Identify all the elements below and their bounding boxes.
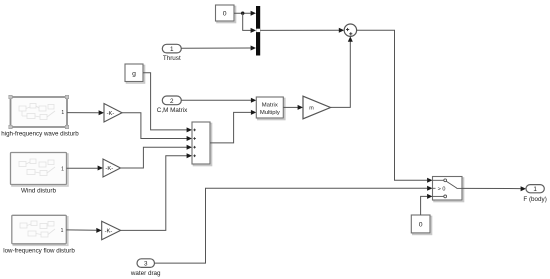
gain m	[303, 96, 331, 119]
svg-text:high-frequency wave disturb: high-frequency wave disturb	[1, 130, 79, 137]
inport 2 C,M Matrix	[157, 96, 188, 114]
wire Thrust to mux input 3	[181, 46, 256, 51]
wire K2 to switch input 3	[421, 194, 433, 215]
outport 1 F (body)	[523, 185, 546, 203]
add block A1 (4-input sum)	[192, 122, 212, 166]
switch block SW1	[433, 177, 464, 202]
svg-text:low-frequency flow disturb: low-frequency flow disturb	[3, 247, 75, 254]
wire block1 to gain G1	[67, 110, 104, 115]
svg-text:F (body): F (body)	[523, 196, 546, 203]
svg-text:-K-: -K-	[107, 111, 115, 117]
svg-text:g: g	[132, 71, 136, 78]
svg-text:> 0: > 0	[438, 187, 446, 193]
wire mux output to sum S1	[260, 28, 344, 33]
svg-text:1: 1	[61, 228, 64, 234]
mux M1	[256, 6, 260, 56]
wire block2 to gain G2	[67, 166, 104, 171]
wire branch K1 to mux input 2	[243, 13, 256, 33]
inport 3 water drag	[130, 259, 161, 277]
wire gain m to sum bottom input	[331, 36, 353, 107]
subsystem block high-frequency wave disturb (selected)	[1, 95, 79, 137]
subsystem block Wind disturb	[11, 153, 69, 195]
constant block K1 value 0 (top)	[216, 5, 236, 23]
wire K1 to mux input 1	[234, 11, 256, 16]
wire gain G1 to add input 2	[122, 113, 192, 141]
svg-text:Matrix: Matrix	[262, 103, 278, 109]
gain G3 -K-	[102, 221, 121, 239]
gain G1 -K-	[104, 104, 122, 123]
wire switch output to outport	[462, 186, 526, 191]
svg-text:-K-: -K-	[105, 229, 113, 235]
svg-text:1: 1	[61, 166, 64, 172]
svg-text:0: 0	[419, 222, 423, 229]
svg-text:m: m	[309, 106, 314, 112]
inport 1 Thrust	[162, 44, 181, 62]
junction node on K1 wire	[241, 12, 244, 15]
gain G2 -K-	[103, 159, 121, 177]
wire gain G2 to add input 3	[121, 145, 193, 168]
subsystem block low-frequency flow disturb	[3, 215, 75, 254]
svg-text:1: 1	[533, 186, 537, 193]
svg-text:C,M Matrix: C,M Matrix	[157, 107, 188, 114]
wire block3 to gain G3	[66, 228, 101, 233]
wire gain G3 to add input 4	[121, 153, 192, 230]
wire sum output to switch input 1	[357, 30, 433, 183]
svg-text:-K-: -K-	[105, 166, 113, 172]
svg-text:Thrust: Thrust	[163, 55, 181, 62]
constant block K2 value 0 (bottom)	[411, 215, 431, 234]
wire water drag to switch input 2	[155, 186, 433, 263]
matrix multiply block U1	[256, 97, 285, 120]
svg-text:3: 3	[144, 261, 148, 268]
svg-text:Wind disturb: Wind disturb	[21, 188, 56, 195]
svg-text:1: 1	[170, 46, 174, 53]
svg-text:water drag: water drag	[130, 270, 161, 277]
svg-text:0: 0	[223, 11, 227, 18]
constant block g	[125, 64, 145, 83]
svg-text:2: 2	[170, 98, 174, 105]
wire add output to matrix multiply input 2	[210, 110, 256, 143]
svg-text:1: 1	[61, 110, 64, 116]
sum S1	[344, 24, 356, 36]
wire matrix multiply to gain m	[283, 105, 303, 110]
svg-text:Multiply: Multiply	[260, 110, 280, 116]
wire g to add input 1	[143, 73, 192, 133]
wire C,M Matrix to matrix multiply input 1	[181, 98, 256, 103]
